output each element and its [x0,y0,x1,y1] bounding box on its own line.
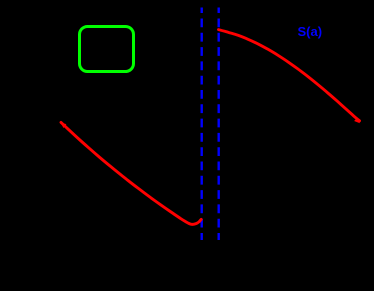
svg-text:S(a): S(a) [298,24,323,39]
